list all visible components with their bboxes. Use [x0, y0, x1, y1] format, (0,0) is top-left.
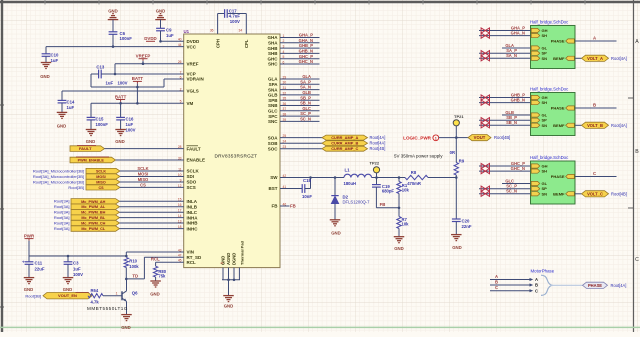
svg-text:CPH: CPH — [215, 39, 220, 48]
svg-text:GND: GND — [86, 139, 96, 144]
inductor L1 — [344, 174, 372, 177]
svg-text:LOGIC_PWR: LOGIC_PWR — [403, 136, 432, 141]
svg-text:GHA_N: GHA_N — [511, 31, 525, 36]
wire/net SA_N — [280, 89, 320, 91]
svg-text:INLC: INLC — [187, 210, 198, 215]
svg-text:VREFP: VREFP — [136, 54, 151, 59]
wire GHC_N — [479, 170, 531, 172]
port VOLT_A — [575, 57, 582, 59]
diode D2 DFLS1200Q-7 — [334, 178, 336, 196]
svg-text:SN: SN — [542, 56, 548, 61]
svg-text:CURR_AMP_A: CURR_AMP_A — [331, 135, 358, 140]
svg-text:C11: C11 — [35, 261, 43, 266]
svg-text:R8: R8 — [411, 170, 417, 175]
port PHASE — [583, 282, 608, 288]
svg-text:+: + — [22, 259, 25, 264]
svg-text:C: C — [635, 257, 639, 263]
capacitor C20 — [455, 178, 457, 220]
svg-text:100V: 100V — [126, 127, 136, 132]
svg-text:100V: 100V — [118, 80, 128, 85]
svg-text:Root[3A]: Root[3A] — [54, 204, 70, 209]
svg-text:SA_P: SA_P — [300, 79, 311, 84]
svg-text:SA_N: SA_N — [300, 85, 311, 90]
svg-text:INHC: INHC — [187, 226, 199, 231]
svg-text:VOLT_B: VOLT_B — [587, 123, 603, 128]
wire GHA_N — [479, 35, 531, 37]
svg-text:C: C — [535, 288, 538, 293]
svg-text:R64: R64 — [91, 288, 99, 293]
op-amp U1 DRV8353RSRGZT IC body — [184, 34, 280, 268]
wire GHC_P — [479, 165, 531, 167]
svg-text:GND: GND — [156, 9, 166, 14]
svg-text:SB_N: SB_N — [506, 120, 517, 125]
resistor R64 — [88, 294, 103, 298]
svg-text:TP21: TP21 — [454, 114, 464, 119]
svg-text:DVDD: DVDD — [144, 36, 156, 41]
svg-text:SNB: SNB — [268, 103, 278, 108]
port FAULT — [70, 146, 105, 152]
wire/net SB_P — [280, 99, 320, 101]
wire VGLS pin — [62, 90, 184, 92]
svg-text:C3: C3 — [73, 261, 79, 266]
svg-text:Mc_PWM_BL: Mc_PWM_BL — [81, 216, 106, 220]
svg-text:SHA: SHA — [268, 41, 278, 46]
sheet symbol Half_bridge B — [531, 93, 576, 136]
svg-text:10k: 10k — [402, 222, 410, 227]
svg-text:GND: GND — [108, 9, 118, 14]
wire GHB_N — [479, 102, 531, 104]
svg-text:5V 350mA power supply: 5V 350mA power supply — [394, 154, 443, 159]
svg-text:Half_bridge.SchDoc: Half_bridge.SchDoc — [530, 20, 569, 25]
svg-text:Root[4B]: Root[4B] — [611, 191, 627, 196]
svg-text:INLB: INLB — [187, 204, 198, 209]
svg-text:BEMF: BEMF — [553, 123, 565, 128]
svg-text:PHASE: PHASE — [551, 39, 565, 44]
svg-text:SCLK: SCLK — [96, 170, 106, 174]
svg-text:680pF: 680pF — [382, 189, 395, 194]
svg-text:A: A — [593, 36, 596, 41]
svg-text:GHA_P: GHA_P — [299, 33, 313, 38]
sheet symbol Half_bridge A — [531, 26, 576, 69]
svg-text:Half_bridge.SchDoc: Half_bridge.SchDoc — [530, 155, 569, 160]
resistor R10 — [124, 258, 128, 268]
svg-text:B: B — [535, 283, 538, 288]
wire phase C input — [490, 290, 530, 292]
wire SB_N — [479, 124, 531, 126]
svg-text:180uH: 180uH — [344, 181, 357, 186]
port CURR_AMP_A — [280, 137, 322, 139]
svg-text:RCL: RCL — [151, 256, 160, 261]
wire SC_N — [479, 193, 531, 195]
svg-text:SCLK: SCLK — [187, 169, 200, 174]
svg-text:CURR_AMP_C: CURR_AMP_C — [331, 146, 358, 151]
svg-text:SPB: SPB — [268, 98, 278, 103]
svg-text:GHA: GHA — [268, 35, 279, 40]
svg-text:VOLT_C: VOLT_C — [587, 191, 603, 196]
svg-text:SC_N: SC_N — [300, 117, 311, 122]
wire GLA — [502, 47, 531, 49]
svg-text:SC_N: SC_N — [506, 189, 517, 194]
svg-text:B: B — [495, 280, 498, 285]
svg-text:L1: L1 — [345, 167, 351, 172]
test point TP22 — [373, 167, 379, 173]
svg-text:VGLS: VGLS — [187, 89, 199, 94]
svg-text:Mc_PWM_CL: Mc_PWM_CL — [81, 227, 106, 231]
svg-text:1: 1 — [116, 292, 118, 296]
svg-text:GLB: GLB — [268, 93, 278, 98]
svg-text:Root[4A]: Root[4A] — [370, 141, 386, 146]
svg-text:VOLT_A: VOLT_A — [587, 56, 603, 61]
svg-text:VDRAIN: VDRAIN — [187, 77, 204, 82]
wire/net GHB_N — [280, 52, 320, 54]
svg-text:DFLS1200Q-7: DFLS1200Q-7 — [343, 200, 371, 205]
svg-text:VM: VM — [187, 101, 194, 106]
svg-text:PHASE: PHASE — [551, 106, 565, 111]
svg-text:SPC: SPC — [268, 114, 278, 119]
wire/net GHB_P — [280, 47, 320, 49]
svg-text:BEMF: BEMF — [553, 56, 565, 61]
svg-text:GLC: GLC — [268, 109, 278, 114]
wire/net GHA_P — [280, 37, 320, 39]
svg-text:PWR: PWR — [24, 233, 35, 238]
capacitor C14 — [61, 91, 63, 100]
svg-text:Root[3A]: Root[3A] — [54, 215, 70, 220]
no-ERC marker GHB_N — [481, 100, 485, 105]
svg-text:100V: 100V — [73, 272, 83, 277]
svg-text:GND: GND — [150, 291, 160, 296]
port CURR_AMP_B — [280, 142, 322, 144]
svg-text:PWM_ENABLE: PWM_ENABLE — [78, 159, 105, 163]
svg-text:PHASE: PHASE — [588, 283, 602, 288]
capacitor C10 — [45, 47, 47, 54]
svg-text:Root[4A]: Root[4A] — [370, 135, 386, 140]
resistor R8 — [405, 175, 428, 179]
svg-text:MMBT5550LT1G: MMBT5550LT1G — [87, 306, 128, 311]
svg-text:B: B — [635, 149, 639, 155]
svg-text:Root[3B]: Root[3B] — [25, 294, 41, 299]
no-ERC marker GHB_P — [481, 95, 485, 100]
svg-text:SH: SH — [542, 169, 548, 174]
svg-text:Q6: Q6 — [132, 291, 138, 296]
svg-text:SNA: SNA — [268, 87, 278, 92]
svg-text:SN: SN — [542, 123, 548, 128]
svg-text:1uF: 1uF — [106, 80, 114, 85]
svg-text:4.7uF: 4.7uF — [229, 14, 241, 19]
svg-text:36: 36 — [210, 29, 214, 33]
svg-text:470mR: 470mR — [407, 181, 421, 186]
svg-text:4.7k: 4.7k — [91, 300, 100, 305]
svg-text:Root[3A]: Root[3A] — [54, 199, 70, 204]
svg-text:TP22: TP22 — [370, 161, 380, 166]
svg-text:100k: 100k — [129, 264, 139, 269]
svg-text:MOSI: MOSI — [96, 175, 105, 179]
svg-text:SDI: SDI — [187, 174, 195, 179]
svg-text:1uF: 1uF — [67, 105, 75, 110]
svg-text:A: A — [635, 39, 639, 45]
no-ERC marker SB_P — [481, 118, 485, 123]
svg-text:A: A — [495, 274, 498, 279]
svg-text:C16: C16 — [126, 117, 134, 122]
wire/net SC_P — [280, 115, 320, 117]
svg-text:SNC: SNC — [268, 119, 278, 124]
svg-text:GHB: GHB — [268, 46, 279, 51]
wire GHA_P — [479, 30, 531, 32]
wire SA_N — [479, 57, 531, 59]
svg-text:R9: R9 — [459, 158, 465, 163]
ground IC bottom — [222, 268, 224, 280]
resistor R1 — [398, 178, 400, 182]
port VOLT_C — [575, 193, 582, 195]
svg-text:MISO: MISO — [96, 181, 106, 185]
wire phase A — [575, 40, 617, 42]
svg-text:Mc_PWM_BH: Mc_PWM_BH — [81, 211, 106, 215]
svg-text:100nF: 100nF — [96, 122, 109, 127]
svg-text:1: 1 — [435, 136, 437, 140]
svg-text:SDO: SDO — [187, 180, 197, 185]
no-ERC marker SC_N — [481, 191, 485, 196]
svg-text:SOB: SOB — [268, 141, 279, 146]
signal harness to PHASE port — [551, 284, 583, 286]
svg-text:ENABLE: ENABLE — [187, 158, 206, 163]
svg-text:Root[3A]_Microcontroller[3B]: Root[3A]_Microcontroller[3B] — [33, 174, 84, 179]
svg-text:DGND: DGND — [232, 253, 237, 265]
svg-text:BATT: BATT — [132, 76, 144, 81]
svg-text:BATT: BATT — [115, 94, 127, 99]
svg-text:0R: 0R — [450, 150, 455, 155]
svg-text:Root[4A]: Root[4A] — [611, 56, 627, 61]
svg-text:C14: C14 — [67, 100, 75, 105]
svg-text:34: 34 — [239, 29, 243, 33]
svg-text:GHC: GHC — [268, 56, 279, 61]
svg-text:Root[4A]: Root[4A] — [611, 123, 627, 128]
svg-text:INHB: INHB — [187, 221, 199, 226]
svg-text:Root[4B]: Root[4B] — [494, 135, 510, 140]
svg-text:GND: GND — [115, 139, 125, 144]
capacitor C15 — [90, 103, 92, 117]
test point TP21 — [453, 120, 459, 126]
svg-text:PHASE: PHASE — [551, 174, 565, 179]
svg-text:BST: BST — [269, 186, 278, 191]
svg-text:Root[3A]_Microcontroller[3B]: Root[3A]_Microcontroller[3B] — [33, 179, 84, 184]
svg-text:SHC: SHC — [268, 62, 278, 67]
svg-text:Root[3A]: Root[3A] — [54, 210, 70, 215]
svg-text:Thermal Pad: Thermal Pad — [239, 240, 244, 265]
svg-text:GHB_N: GHB_N — [299, 49, 313, 54]
svg-text:21: 21 — [220, 261, 224, 265]
wire phase C — [575, 176, 617, 178]
svg-text:22nF: 22nF — [462, 224, 472, 229]
no-ERC marker GHC_P — [481, 163, 485, 168]
svg-text:GHC_N: GHC_N — [511, 166, 525, 171]
svg-text:C18: C18 — [303, 178, 311, 183]
wire/net SB_N — [280, 105, 320, 107]
svg-text:FAULT: FAULT — [187, 146, 201, 151]
capacitor C11 — [28, 256, 30, 262]
svg-text:CPL: CPL — [244, 39, 249, 48]
wire SW rail — [280, 177, 344, 179]
svg-text:SPA: SPA — [269, 82, 279, 87]
svg-text:10k: 10k — [402, 188, 410, 193]
svg-text:10nF: 10nF — [302, 194, 312, 199]
capacitor C6 — [108, 19, 119, 21]
svg-text:VCC: VCC — [187, 44, 197, 49]
svg-text:100V: 100V — [230, 19, 240, 24]
svg-text:Half_bridge.SchDoc: Half_bridge.SchDoc — [530, 87, 569, 92]
svg-text:BEMF: BEMF — [553, 191, 565, 196]
svg-text:75k: 75k — [158, 274, 166, 279]
wire/net GHC_P — [280, 58, 320, 60]
svg-text:Root[3A]_Microcontroller[3B]: Root[3A]_Microcontroller[3B] — [33, 168, 84, 173]
svg-text:AGND: AGND — [226, 253, 231, 265]
sheet symbol Half_bridge C — [531, 161, 576, 204]
resistor R7 — [398, 208, 400, 217]
wire/net GLA — [280, 78, 320, 80]
svg-text:SW: SW — [270, 175, 278, 180]
svg-text:U1: U1 — [184, 29, 190, 34]
svg-text:GND: GND — [40, 74, 50, 79]
svg-text:GLC: GLC — [302, 106, 311, 111]
svg-text:Mc_PWM_CH: Mc_PWM_CH — [81, 222, 106, 226]
no-ERC marker GHC_N — [481, 169, 485, 174]
wire VREF pin — [115, 63, 184, 65]
svg-text:DRV8353RSRGZT: DRV8353RSRGZT — [215, 154, 258, 159]
svg-text:1uF: 1uF — [51, 58, 59, 63]
wire VM rail — [91, 102, 184, 104]
svg-text:SB_N: SB_N — [300, 101, 311, 106]
svg-text:RCL: RCL — [187, 260, 196, 265]
sheet border frame — [0, 1, 640, 3]
no-ERC marker SB_N — [481, 123, 485, 128]
svg-text:FB: FB — [290, 203, 296, 208]
svg-text:INLA: INLA — [187, 199, 198, 204]
svg-text:Root[4B]: Root[4B] — [370, 146, 386, 151]
svg-text:CS: CS — [98, 186, 104, 190]
svg-text:GND: GND — [57, 124, 67, 129]
svg-text:1uF: 1uF — [166, 33, 174, 38]
svg-text:MISO: MISO — [138, 177, 149, 182]
wire/net SC_N — [280, 120, 320, 122]
wire BATT rail — [90, 74, 92, 87]
svg-text:MOSI: MOSI — [138, 172, 148, 177]
svg-text:SB_P: SB_P — [300, 95, 311, 100]
svg-text:VOUT: VOUT — [474, 135, 486, 140]
svg-text:C10: C10 — [51, 53, 59, 58]
svg-text:GLA: GLA — [268, 77, 278, 82]
svg-text:GND: GND — [24, 287, 34, 292]
svg-text:SA_N: SA_N — [506, 53, 517, 58]
wire phase B input — [490, 284, 530, 286]
svg-text:D2: D2 — [343, 194, 349, 199]
svg-text:VOUT_EN: VOUT_EN — [58, 293, 77, 298]
svg-text:GND: GND — [452, 245, 462, 250]
wire SA_P — [479, 52, 531, 54]
svg-text:FB: FB — [272, 204, 279, 209]
svg-text:Root[4A]: Root[4A] — [611, 283, 627, 288]
svg-text:GND: GND — [331, 231, 341, 236]
svg-text:GND: GND — [63, 287, 73, 292]
svg-text:GND: GND — [121, 325, 131, 330]
wire GHB_P — [479, 97, 531, 99]
svg-text:SCLK: SCLK — [137, 166, 148, 171]
svg-text:SOC: SOC — [268, 146, 279, 151]
svg-text:Root[3A]: Root[3A] — [54, 220, 70, 225]
svg-text:SH: SH — [542, 100, 548, 105]
svg-text:FB: FB — [380, 202, 386, 207]
svg-text:A: A — [535, 277, 538, 282]
net label FB at pin — [280, 205, 290, 207]
wire PWR rail — [29, 255, 126, 257]
svg-text:GHA_N: GHA_N — [299, 38, 313, 43]
svg-text:SH: SH — [542, 33, 548, 38]
no-ERC marker SA_P — [481, 51, 485, 56]
svg-text:1uF: 1uF — [73, 266, 81, 271]
wire GLB — [502, 114, 531, 116]
capacitor C16 — [120, 103, 122, 117]
svg-text:DVDD: DVDD — [187, 39, 201, 44]
svg-text:VREF: VREF — [187, 61, 199, 66]
wire/net GLC — [280, 110, 320, 112]
svg-text:Root[3B]: Root[3B] — [68, 185, 84, 190]
no-ERC marker SA_N — [481, 56, 485, 61]
svg-text:GHC_N: GHC_N — [299, 59, 313, 64]
MotorPhase brace — [541, 275, 552, 295]
svg-text:C6: C6 — [120, 31, 126, 36]
svg-text:FAULT: FAULT — [79, 146, 92, 151]
svg-text:C13: C13 — [96, 65, 104, 70]
svg-text:C20: C20 — [462, 218, 470, 223]
capacitor C3 — [67, 256, 69, 262]
wire/net GHC_N — [280, 63, 320, 65]
svg-text:C15: C15 — [96, 117, 104, 122]
svg-text:TD: TD — [132, 274, 138, 279]
svg-text:B: B — [593, 103, 596, 108]
svg-text:GHB_N: GHB_N — [511, 98, 525, 103]
svg-text:CS: CS — [140, 183, 146, 188]
wire/net GHA_N — [280, 42, 320, 44]
wire GLC — [502, 183, 531, 185]
wire SC_P — [479, 188, 531, 190]
svg-text:CURR_AMP_B: CURR_AMP_B — [331, 141, 358, 146]
wire/net SA_P — [280, 83, 320, 85]
svg-text:SHB: SHB — [268, 51, 278, 56]
no-ERC marker GHA_N — [481, 33, 485, 38]
port VOLT_B — [575, 124, 582, 126]
svg-text:100nF: 100nF — [120, 36, 133, 41]
svg-text:SN: SN — [542, 191, 548, 196]
wire phase A input — [490, 279, 530, 281]
wire/net GLB — [280, 94, 320, 96]
svg-text:Mc_PWM_AH: Mc_PWM_AH — [81, 200, 106, 204]
port PWM_ENABLE — [70, 157, 116, 163]
capacitor C19 — [376, 178, 378, 185]
wire SB_P — [479, 119, 531, 121]
wire VCC rail — [46, 46, 184, 48]
no-ERC marker GHA_P — [481, 28, 485, 33]
svg-text:1uF: 1uF — [126, 122, 134, 127]
capacitor C18 — [280, 188, 302, 190]
svg-text:INHA: INHA — [187, 215, 199, 220]
svg-text:22uF: 22uF — [35, 266, 45, 271]
wire phase B — [575, 107, 617, 109]
svg-text:GHB_P: GHB_P — [299, 43, 313, 48]
no-ERC marker SC_P — [481, 186, 485, 191]
svg-text:GLA: GLA — [302, 74, 311, 79]
svg-text:C: C — [593, 171, 596, 176]
svg-text:Root[3A]: Root[3A] — [54, 226, 70, 231]
svg-text:Mc_PWM_AL: Mc_PWM_AL — [81, 205, 106, 209]
port CURR_AMP_C — [280, 148, 322, 150]
svg-text:SCS: SCS — [187, 185, 196, 190]
